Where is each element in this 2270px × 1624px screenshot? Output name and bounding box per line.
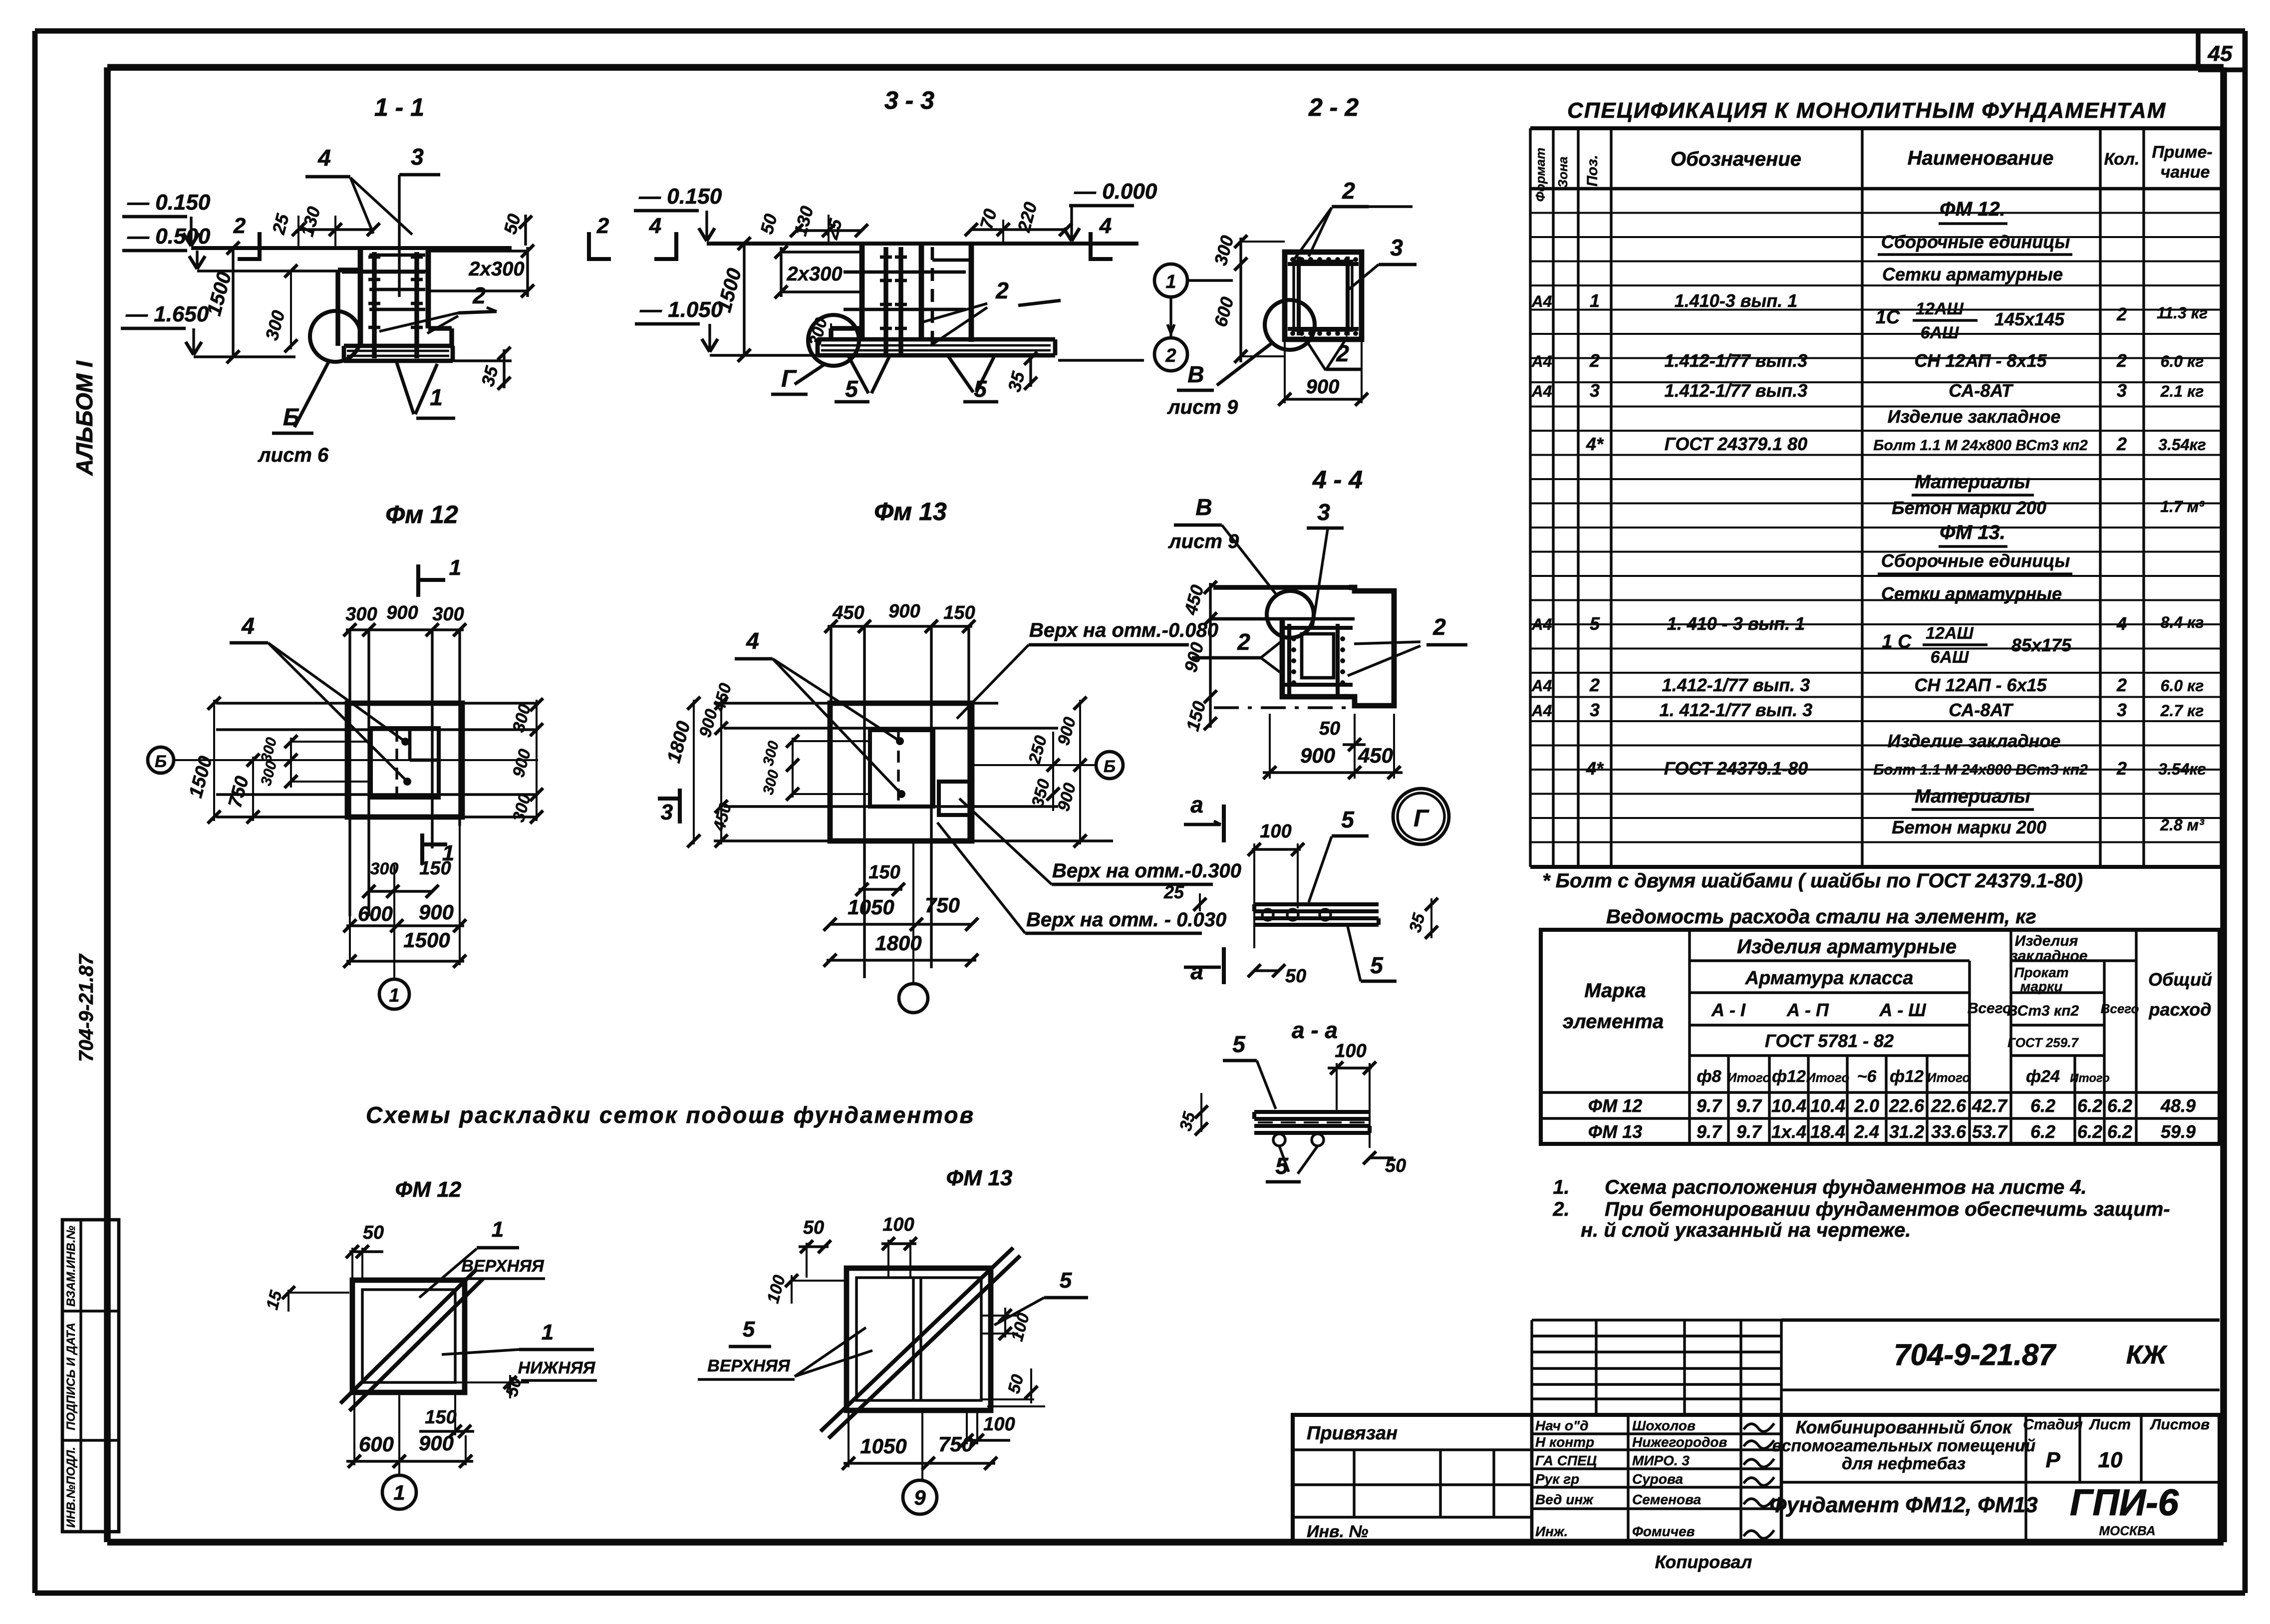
svg-text:Инж.: Инж. xyxy=(1535,1524,1568,1539)
plan FM12 inner step lines xyxy=(408,728,412,760)
svg-text:6.2: 6.2 xyxy=(2030,1121,2055,1142)
svg-text:МИРО. 3: МИРО. 3 xyxy=(1632,1453,1690,1468)
svg-text:ф12: ф12 xyxy=(1772,1067,1806,1086)
svg-text:150: 150 xyxy=(419,858,451,879)
svg-text:Фомичев: Фомичев xyxy=(1632,1524,1695,1539)
svg-text:a - a: a - a xyxy=(1292,1017,1338,1043)
svg-text:ГА СПЕЦ: ГА СПЕЦ xyxy=(1535,1453,1597,1468)
plan FM13 axis circle B right xyxy=(972,764,1096,766)
svg-text:3: 3 xyxy=(2117,700,2127,720)
svg-text:ИНВ.№ПОДЛ.: ИНВ.№ПОДЛ. xyxy=(64,1447,78,1528)
title block stadia list listov xyxy=(2024,1415,2027,1542)
svg-text:45: 45 xyxy=(2208,41,2233,66)
svg-text:2.4: 2.4 xyxy=(1854,1121,1879,1142)
svg-text:ФМ 13: ФМ 13 xyxy=(946,1166,1013,1190)
detail a dim 35 xyxy=(1430,898,1432,938)
svg-text:4*: 4* xyxy=(1586,434,1604,454)
svg-text:12АШ: 12АШ xyxy=(1916,299,1964,318)
svg-text:Поз.: Поз. xyxy=(1584,155,1601,187)
svg-text:1800: 1800 xyxy=(875,931,921,955)
svg-text:Фм 12: Фм 12 xyxy=(385,501,458,529)
svg-text:Наименование: Наименование xyxy=(1908,147,2054,169)
outer paper border xyxy=(35,28,2245,34)
svg-text:100: 100 xyxy=(1260,821,1291,842)
section 4-4 mesh rebar verticals xyxy=(1287,624,1291,695)
svg-text:Сетки арматурные: Сетки арматурные xyxy=(1881,583,2062,604)
section 1-1 level line bottom xyxy=(194,355,295,358)
svg-text:СА-8АТ: СА-8АТ xyxy=(1949,380,2013,401)
svg-text:4: 4 xyxy=(1099,214,1112,238)
svg-text:~6: ~6 xyxy=(1857,1067,1877,1086)
section 3-3 label 5 hatch right xyxy=(948,356,973,392)
section 3-3 left step outline xyxy=(829,328,833,339)
section 3-3 label 5 hatch left xyxy=(849,356,868,393)
detail a-a plates xyxy=(1254,1110,1370,1114)
detail a bolt circles xyxy=(1262,909,1273,920)
svg-text:1.412-1/77 вып. 3: 1.412-1/77 вып. 3 xyxy=(1662,675,1810,695)
svg-text:1 С: 1 С xyxy=(1882,631,1912,652)
svg-text:22.6: 22.6 xyxy=(1889,1095,1925,1116)
svg-text:лист 9: лист 9 xyxy=(1167,396,1238,418)
svg-text:150: 150 xyxy=(943,602,975,623)
section 1-1 horizontal rebar and dim 2x300 xyxy=(428,250,528,252)
title block upper small grid xyxy=(1530,1320,1533,1415)
svg-text:ВСт3 кп2: ВСт3 кп2 xyxy=(2007,1003,2079,1019)
svg-text:— 0.000: — 0.000 xyxy=(1074,179,1157,204)
svg-text:НИЖНЯЯ: НИЖНЯЯ xyxy=(518,1358,596,1377)
section 1-1 section marker 2 left xyxy=(258,232,262,261)
svg-text:СА-8АТ: СА-8АТ xyxy=(1949,700,2013,720)
svg-text:Фм 13: Фм 13 xyxy=(874,498,947,526)
section 3-3 wall outline xyxy=(859,244,865,339)
svg-text:Фундамент ФМ12, ФМ13: Фундамент ФМ12, ФМ13 xyxy=(1769,1493,2037,1517)
svg-text:Итого: Итого xyxy=(1927,1070,1971,1085)
plan FM12 wall vertical lines xyxy=(348,630,351,916)
svg-text:100: 100 xyxy=(983,1414,1015,1435)
svg-text:1.412-1/77 вып.3: 1.412-1/77 вып.3 xyxy=(1665,350,1808,371)
svg-text:ВЕРХНЯЯ: ВЕРХНЯЯ xyxy=(461,1257,545,1276)
plan FM13 section marker 3 left xyxy=(678,789,682,823)
svg-text:Комбинированный блок: Комбинированный блок xyxy=(1796,1417,2013,1437)
section 2-2 axis connector xyxy=(1169,297,1172,338)
svg-text:900: 900 xyxy=(386,602,418,623)
svg-text:2: 2 xyxy=(1342,178,1355,204)
svg-text:Нач о"д: Нач о"д xyxy=(1535,1418,1589,1433)
svg-text:1: 1 xyxy=(542,1320,554,1345)
plan FM12 bottom edge extension xyxy=(216,815,538,818)
svg-text:А - Ш: А - Ш xyxy=(1879,1000,1926,1020)
sheet number box top-right xyxy=(2196,31,2200,70)
svg-text:6.2: 6.2 xyxy=(2030,1095,2055,1116)
svg-text:3.54кг: 3.54кг xyxy=(2158,436,2206,454)
svg-text:750: 750 xyxy=(925,893,960,917)
section 3-3 slab mesh xyxy=(821,344,1051,347)
section 1-1 dim 300 left xyxy=(290,271,292,349)
svg-text:Изделия арматурные: Изделия арматурные xyxy=(1737,936,1957,958)
svg-text:6.2: 6.2 xyxy=(2077,1121,2102,1142)
section 1-1 left step outline xyxy=(335,270,340,346)
section 2-2 mesh rebar horizontals xyxy=(1288,262,1359,266)
svg-text:3: 3 xyxy=(1390,235,1403,261)
left margin stamp strip xyxy=(62,1220,119,1532)
svg-text:ГОСТ 24379.1 80: ГОСТ 24379.1 80 xyxy=(1665,434,1807,454)
detail a-a bolt circles xyxy=(1273,1134,1285,1146)
svg-text:Марка: Марка xyxy=(1584,980,1646,1002)
svg-text:2.0: 2.0 xyxy=(1854,1095,1879,1116)
plan FM13 horizontal lines xyxy=(724,727,1058,729)
section 4-4 level line -0.080 xyxy=(1210,617,1355,621)
svg-text:10.4: 10.4 xyxy=(1810,1095,1845,1116)
svg-text:элемента: элемента xyxy=(1563,1011,1664,1033)
svg-text:50: 50 xyxy=(1319,718,1340,739)
plan FM12 horizontal wall lines xyxy=(216,728,538,731)
svg-text:1: 1 xyxy=(430,384,443,410)
svg-text:2: 2 xyxy=(1589,350,1600,371)
section 4-4 mesh rebar horizontals xyxy=(1283,626,1353,630)
svg-text:Итого: Итого xyxy=(1727,1070,1771,1085)
svg-text:н. й слой указанный на че: н. й слой указанный на чертеже. xyxy=(1581,1219,1911,1241)
sxema FM13 dim 50 right ext lines xyxy=(981,1398,1034,1400)
section 4-4 left dim chain xyxy=(1209,583,1211,728)
svg-text:Итого: Итого xyxy=(2070,1072,2110,1085)
svg-text:5: 5 xyxy=(1232,1031,1246,1057)
svg-text:6АШ: 6АШ xyxy=(1921,323,1959,342)
svg-text:Сборочные единицы: Сборочные единицы xyxy=(1881,232,2070,252)
svg-text:6.0 кг: 6.0 кг xyxy=(2161,677,2204,695)
section 3-3 detail circle G xyxy=(808,315,859,366)
svg-text:вспомогательных помещений: вспомогательных помещений xyxy=(1772,1436,2036,1455)
section 1-1 detail circle B xyxy=(310,311,361,362)
vedomost table horizontals xyxy=(1690,959,1970,962)
svg-text:Н контр: Н контр xyxy=(1535,1434,1594,1450)
svg-text:Бетон марки 200: Бетон марки 200 xyxy=(1892,817,2046,837)
svg-text:— 0.150: — 0.150 xyxy=(638,184,722,209)
svg-text:9.7: 9.7 xyxy=(1736,1095,1762,1116)
svg-text:10: 10 xyxy=(2098,1448,2123,1472)
svg-text:2: 2 xyxy=(1589,675,1600,695)
section 4-4 cup outline xyxy=(1282,622,1346,697)
svg-text:2: 2 xyxy=(2116,758,2127,779)
svg-text:900: 900 xyxy=(419,900,454,924)
svg-text:2: 2 xyxy=(472,282,486,308)
svg-text:А4: А4 xyxy=(1531,702,1552,720)
svg-text:Сетки арматурные: Сетки арматурные xyxy=(1882,264,2063,284)
detail a-a center dash xyxy=(1258,1121,1367,1123)
svg-text:2 - 2: 2 - 2 xyxy=(1308,93,1359,121)
svg-text:А4: А4 xyxy=(1531,382,1552,400)
section 1-1 label 1 hatch xyxy=(396,361,414,414)
svg-text:КЖ: КЖ xyxy=(2126,1341,2168,1369)
plan FM13 wall vertical lines xyxy=(830,626,832,843)
section 2-2 axis leader xyxy=(1187,279,1233,281)
svg-text:Прокат: Прокат xyxy=(2014,965,2068,980)
plan FM13 step rect xyxy=(939,782,972,815)
svg-text:— 0.150: — 0.150 xyxy=(127,190,211,215)
svg-text:1.7 м³: 1.7 м³ xyxy=(2160,498,2205,516)
svg-text:1500: 1500 xyxy=(403,928,450,952)
section 1-1 slab mesh xyxy=(347,350,449,352)
svg-text:ф8: ф8 xyxy=(1697,1067,1721,1086)
svg-text:Болт 1.1 М 24x800 ВСт3 кп2: Болт 1.1 М 24x800 ВСт3 кп2 xyxy=(1873,762,2088,778)
svg-text:1: 1 xyxy=(389,985,399,1006)
svg-text:Верх на отм. - 0.030: Верх на отм. - 0.030 xyxy=(1026,909,1226,931)
sxema FM12 axis circle 1 xyxy=(398,1393,400,1475)
svg-text:Формат: Формат xyxy=(1533,148,1548,202)
svg-text:Изделие закладное: Изделие закладное xyxy=(1888,406,2061,427)
section 3-3 bottom right level line xyxy=(1058,359,1144,361)
svg-text:В: В xyxy=(1195,494,1212,520)
svg-text:Верх на отм.-0.300: Верх на отм.-0.300 xyxy=(1052,860,1241,882)
section 1-1 level line mid xyxy=(197,270,429,272)
svg-text:704-9-21.87: 704-9-21.87 xyxy=(75,953,97,1062)
plan FM12 slab square xyxy=(347,703,462,817)
title block main outline xyxy=(1293,1415,2220,1542)
svg-text:6.2: 6.2 xyxy=(2107,1095,2132,1116)
plan FM12 left small dims 300 300 xyxy=(290,738,292,788)
svg-text:6.2: 6.2 xyxy=(2077,1095,2102,1116)
section 4-4 outline top xyxy=(1213,585,1352,589)
svg-text:чание: чание xyxy=(2161,163,2210,182)
svg-text:Приме-: Приме- xyxy=(2152,143,2212,162)
section 2-2 plan square inner xyxy=(1294,261,1352,330)
svg-text:4: 4 xyxy=(746,628,759,654)
svg-text:33.6: 33.6 xyxy=(1931,1121,1967,1142)
svg-text:6.0 кг: 6.0 кг xyxy=(2161,352,2204,370)
title block signatures squiggles xyxy=(1744,1424,1773,1431)
plan FM12 axis circle 1 bottom xyxy=(393,865,395,978)
svg-text:Листов: Листов xyxy=(2150,1416,2210,1433)
section 2-2 mesh dots xyxy=(1290,257,1295,262)
svg-text:a: a xyxy=(1190,792,1203,817)
svg-text:Кол.: Кол. xyxy=(2104,150,2140,169)
svg-text:5: 5 xyxy=(974,376,987,402)
svg-text:900: 900 xyxy=(1306,376,1340,398)
plan FM13 anchor dots xyxy=(896,737,904,745)
svg-text:ФМ 12.: ФМ 12. xyxy=(1940,198,2005,220)
svg-text:ВЕРХНЯЯ: ВЕРХНЯЯ xyxy=(707,1356,791,1375)
svg-text:100: 100 xyxy=(1335,1041,1366,1062)
section 3-3 bottom level line xyxy=(710,354,820,356)
sxema FM13 diagonal double line xyxy=(821,1248,1013,1431)
section 2-2 label V list 9 xyxy=(1217,342,1273,385)
svg-text:3: 3 xyxy=(2117,380,2127,401)
svg-text:100: 100 xyxy=(882,1214,914,1235)
svg-text:53.7: 53.7 xyxy=(1972,1121,2008,1142)
sxema FM12 outer square xyxy=(352,1280,465,1392)
section 3-3 wall rebar verticals xyxy=(883,247,888,354)
plan FM13 axis circle bottom xyxy=(912,843,914,983)
svg-text:1: 1 xyxy=(1165,271,1176,292)
svg-text:Сурова: Сурова xyxy=(1632,1471,1683,1487)
svg-text:Г: Г xyxy=(781,366,797,392)
section 3-3 wall cross bars xyxy=(844,271,966,274)
plan FM12 inner dashed line xyxy=(395,730,398,796)
svg-text:марки: марки xyxy=(2020,979,2063,994)
section 1-1 slab outline xyxy=(344,344,453,348)
svg-text:300: 300 xyxy=(345,604,377,625)
svg-text:1: 1 xyxy=(1590,290,1600,311)
section 2-2 axis circle 2 xyxy=(1154,338,1187,371)
section 3-3 section marker 4 left xyxy=(674,232,678,261)
section 1-1 wall outline xyxy=(358,248,363,346)
svg-text:9.7: 9.7 xyxy=(1736,1121,1762,1142)
svg-text:3.54кг: 3.54кг xyxy=(2158,760,2206,778)
svg-text:ФМ 12: ФМ 12 xyxy=(395,1177,462,1202)
svg-text:704-9-21.87: 704-9-21.87 xyxy=(1894,1338,2056,1371)
plan FM13 right dims 250 350 900 900 xyxy=(1052,732,1054,811)
svg-text:22.6: 22.6 xyxy=(1931,1095,1967,1116)
vedomost table outline xyxy=(1541,930,2220,1144)
svg-text:Г: Г xyxy=(1414,806,1429,832)
svg-text:2.: 2. xyxy=(1552,1198,1569,1220)
svg-text:5: 5 xyxy=(845,376,858,402)
svg-text:4: 4 xyxy=(317,145,331,171)
svg-text:1.412-1/77 вып.3: 1.412-1/77 вып.3 xyxy=(1665,380,1808,401)
svg-text:4: 4 xyxy=(2116,613,2127,634)
section 3-3 dim 35 right xyxy=(1029,355,1032,387)
plan FM13 small dims 300 300 xyxy=(792,738,794,798)
title block left part privyazan xyxy=(1293,1448,1532,1451)
svg-text:Итого: Итого xyxy=(1806,1070,1850,1085)
svg-text:Стадия: Стадия xyxy=(2023,1416,2083,1433)
section 1-1 section marker 2 right xyxy=(587,232,591,261)
svg-text:Б: Б xyxy=(283,404,300,431)
svg-text:42.7: 42.7 xyxy=(1972,1095,2008,1116)
section 3-3 slab outline xyxy=(818,337,1055,342)
plan FM12 left dim 1500 750 xyxy=(213,700,215,821)
svg-text:2x300: 2x300 xyxy=(786,263,842,285)
svg-text:ГОСТ 5781 - 82: ГОСТ 5781 - 82 xyxy=(1765,1031,1894,1051)
svg-text:ВЗАМ.ИНВ.№: ВЗАМ.ИНВ.№ xyxy=(64,1225,78,1307)
svg-text:12АШ: 12АШ xyxy=(1926,624,1974,643)
svg-text:Изделия: Изделия xyxy=(2015,933,2078,949)
section 4-4 axis dash line xyxy=(1214,706,1346,709)
svg-text:Копировал: Копировал xyxy=(1655,1552,1752,1572)
svg-text:2: 2 xyxy=(2116,304,2127,324)
svg-text:600: 600 xyxy=(359,1432,394,1456)
svg-text:Инв. №: Инв. № xyxy=(1307,1522,1368,1541)
svg-text:2: 2 xyxy=(596,214,609,238)
section 1-1 wall rebar verticals xyxy=(372,252,376,358)
svg-text:Арматура класса: Арматура класса xyxy=(1745,968,1914,989)
svg-text:Верх на отм.-0.080: Верх на отм.-0.080 xyxy=(1029,619,1218,641)
svg-text:— 1.050: — 1.050 xyxy=(639,297,723,322)
section 3-3 right column outline xyxy=(969,244,974,342)
title block upper right area xyxy=(1781,1319,2220,1322)
svg-text:Всего: Всего xyxy=(1968,1000,2012,1017)
svg-text:18.4: 18.4 xyxy=(1810,1121,1845,1142)
svg-text:a: a xyxy=(1190,958,1203,984)
svg-text:1: 1 xyxy=(449,555,461,580)
section 2-2 axis circle 1 xyxy=(1154,264,1187,297)
vedomost table verticals xyxy=(1688,930,1691,1144)
svg-text:9.7: 9.7 xyxy=(1697,1095,1722,1116)
svg-text:ПОДПИСЬ И ДАТА: ПОДПИСЬ И ДАТА xyxy=(64,1323,78,1430)
section 3-3 label G leader xyxy=(795,363,826,384)
svg-text:Р: Р xyxy=(2045,1448,2060,1472)
svg-text:2: 2 xyxy=(2116,350,2127,371)
svg-text:2: 2 xyxy=(1432,614,1446,640)
svg-text:85x175: 85x175 xyxy=(2011,635,2072,655)
section 2-2 plan square outer xyxy=(1285,252,1362,339)
svg-text:Схема расположения фундаме: Схема расположения фундаментов на листе … xyxy=(1605,1176,2087,1198)
svg-text:3: 3 xyxy=(1590,700,1600,720)
detail a-a dim 35 xyxy=(1200,1093,1202,1132)
svg-text:4 - 4: 4 - 4 xyxy=(1312,466,1363,494)
svg-text:Обозначение: Обозначение xyxy=(1671,148,1801,170)
svg-text:МОСКВА: МОСКВА xyxy=(2099,1523,2155,1538)
svg-text:расход: расход xyxy=(2149,999,2212,1020)
svg-text:8.4 кг: 8.4 кг xyxy=(2161,613,2204,631)
svg-text:ФМ 12: ФМ 12 xyxy=(1588,1095,1643,1116)
svg-text:Зона: Зона xyxy=(1555,157,1570,188)
svg-text:ф12: ф12 xyxy=(1890,1067,1924,1086)
svg-text:Сборочные единицы: Сборочные единицы xyxy=(1881,550,2070,571)
section 1-1 right step outline xyxy=(428,326,452,330)
svg-text:СН 12АП - 6х15: СН 12АП - 6х15 xyxy=(1914,675,2047,695)
svg-text:Б: Б xyxy=(1104,757,1116,776)
svg-text:1. 412-1/77 вып. 3: 1. 412-1/77 вып. 3 xyxy=(1660,700,1813,720)
svg-text:2x300: 2x300 xyxy=(468,258,524,280)
svg-text:* Болт с двумя шайбами (: * Болт с двумя шайбами ( шайбы по ГОСТ 2… xyxy=(1542,870,2083,892)
svg-text:6АШ: 6АШ xyxy=(1931,648,1969,667)
svg-text:Изделие закладное: Изделие закладное xyxy=(1888,731,2061,751)
svg-text:2: 2 xyxy=(2116,675,2127,695)
svg-text:Рук гр: Рук гр xyxy=(1535,1471,1579,1487)
section 4-4 detail circle V xyxy=(1267,591,1314,638)
svg-text:Материалы: Материалы xyxy=(1915,472,2030,493)
plan FM12 top edge extension xyxy=(216,702,538,704)
sxema FM13 axis circle 9 xyxy=(921,1410,923,1480)
plan FM13 left dims 1800 900 450 xyxy=(693,700,695,844)
section 4-4 mesh dots xyxy=(1291,636,1296,641)
svg-text:2: 2 xyxy=(1237,629,1250,655)
svg-text:А4: А4 xyxy=(1531,292,1552,310)
drawing frame xyxy=(107,64,2224,71)
svg-text:3 - 3: 3 - 3 xyxy=(884,86,934,114)
svg-text:А4: А4 xyxy=(1531,352,1552,370)
svg-text:1: 1 xyxy=(393,1481,405,1504)
section 3-3 section marker 4 right xyxy=(1089,232,1093,261)
svg-text:1050: 1050 xyxy=(848,895,894,919)
circled letter G xyxy=(1393,789,1449,844)
sxema FM12 diagonal double line xyxy=(340,1270,476,1403)
svg-text:300: 300 xyxy=(432,604,464,625)
svg-text:5: 5 xyxy=(1341,807,1355,832)
svg-text:450: 450 xyxy=(1358,744,1393,767)
svg-text:9.7: 9.7 xyxy=(1697,1121,1722,1142)
svg-text:1.: 1. xyxy=(1553,1176,1569,1198)
detail a plates xyxy=(1254,902,1379,906)
plan FM13 slab rect xyxy=(830,703,972,841)
svg-text:25: 25 xyxy=(1163,882,1184,902)
svg-text:2.8 м³: 2.8 м³ xyxy=(2160,816,2205,834)
svg-text:для нефтебаз: для нефтебаз xyxy=(1842,1454,1966,1473)
svg-text:5: 5 xyxy=(1060,1268,1072,1293)
section 3-3 anchor bolt dashed xyxy=(931,247,934,349)
svg-text:А4: А4 xyxy=(1531,615,1552,633)
section 4-4 inner square xyxy=(1302,634,1334,678)
svg-text:ФМ 13: ФМ 13 xyxy=(1588,1121,1643,1142)
svg-text:5: 5 xyxy=(1370,952,1384,978)
svg-text:Шохолов: Шохолов xyxy=(1632,1418,1696,1433)
svg-text:Привязан: Привязан xyxy=(1307,1423,1398,1444)
svg-text:Бетон марки 200: Бетон марки 200 xyxy=(1892,498,2046,518)
svg-text:1. 410 - 3 вып. 1: 1. 410 - 3 вып. 1 xyxy=(1667,613,1805,634)
svg-text:Общий: Общий xyxy=(2148,969,2212,990)
svg-text:А - I: А - I xyxy=(1711,1000,1746,1020)
svg-text:ф24: ф24 xyxy=(2026,1067,2060,1086)
